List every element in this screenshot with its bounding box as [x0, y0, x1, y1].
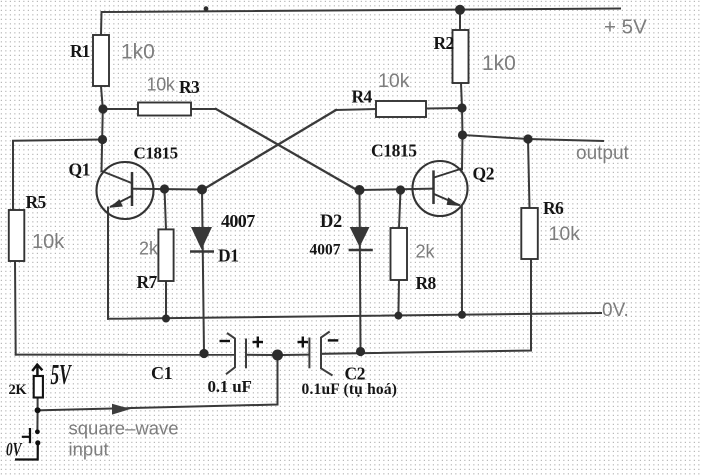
wire Q2 base lead	[360, 189, 434, 190]
svg-text:2K: 2K	[9, 382, 28, 398]
wire Q1 collector diagonal	[102, 171, 132, 183]
junction Q1 base / D1	[197, 185, 207, 195]
svg-text:input: input	[69, 439, 109, 460]
svg-text:R8: R8	[416, 273, 437, 293]
wire Q2 collector vertical	[461, 135, 464, 169]
wire R3 left lead	[103, 108, 138, 110]
svg-text:5V: 5V	[51, 360, 73, 391]
svg-text:2k: 2k	[416, 242, 436, 262]
svg-text:0V: 0V	[6, 438, 23, 460]
svg-text:10k: 10k	[32, 231, 65, 253]
C2 minus sign	[328, 339, 339, 341]
svg-text:R3: R3	[179, 77, 200, 97]
resistor 2K input	[34, 376, 43, 398]
wire R2 bottom lead	[461, 83, 462, 108]
diode D1	[190, 227, 214, 252]
svg-text:4007: 4007	[221, 211, 255, 231]
wire R2 top lead	[459, 10, 461, 30]
svg-text:4007: 4007	[310, 242, 341, 259]
resistor R5	[9, 210, 24, 261]
transistor Q2	[413, 161, 468, 216]
speck on top rail	[204, 6, 209, 11]
junction output / collector	[458, 130, 467, 139]
wire D2 vertical	[360, 190, 361, 352]
wire 2K bottom lead	[37, 398, 39, 411]
junction cap line / D2	[356, 347, 365, 356]
svg-text:10k: 10k	[147, 75, 176, 95]
wire R8 top lead	[399, 190, 401, 228]
wire node to left branch	[13, 140, 103, 211]
svg-text:+ 5V: + 5V	[604, 16, 647, 39]
wire R8 bottom lead	[397, 280, 400, 315]
svg-text:1k0: 1k0	[482, 52, 516, 75]
diode D2	[349, 227, 373, 250]
wire output line	[463, 135, 604, 141]
wire R7 bottom lead	[165, 281, 167, 318]
resistor R3	[138, 103, 191, 116]
wire Q1 emitter vertical	[107, 208, 109, 319]
svg-text:square–wave: square–wave	[69, 418, 179, 439]
svg-text:D1: D1	[218, 246, 239, 266]
capacitor C2	[309, 332, 332, 376]
wire middle node to C2 plate	[283, 354, 309, 356]
resistor R8	[391, 228, 408, 280]
wire capacitor line right to R6 bottom	[322, 259, 532, 354]
transistor Q1	[97, 162, 154, 219]
svg-text:R4: R4	[352, 87, 373, 107]
wire D1 vertical	[202, 190, 204, 354]
junction cap line / D1	[199, 349, 208, 358]
5V supply arrow (bottom-left)	[32, 365, 42, 377]
wire R4 right lead	[426, 107, 462, 110]
svg-text:Q2: Q2	[473, 164, 495, 184]
svg-text:Q1: Q1	[69, 160, 91, 180]
svg-text:0.1 uF: 0.1 uF	[208, 377, 252, 396]
wire 0V rail	[108, 313, 601, 319]
svg-text:R7: R7	[137, 272, 158, 292]
junction 0V / Q2 emitter	[458, 311, 466, 319]
junction node left branch	[98, 135, 107, 144]
resistor R6	[521, 208, 538, 259]
C1 plus sign	[253, 337, 264, 348]
svg-text:C1815: C1815	[134, 144, 178, 163]
svg-text:C1: C1	[151, 363, 173, 383]
junction output / R6	[523, 134, 532, 143]
svg-text:R6: R6	[543, 198, 564, 218]
svg-text:10k: 10k	[378, 70, 410, 92]
junction cap line middle (C1/C2)	[272, 350, 283, 361]
junction 0V / R7	[162, 315, 170, 323]
C2 plus sign	[298, 337, 309, 348]
wire R4 left lead	[336, 109, 376, 110]
svg-text:10k: 10k	[549, 223, 581, 245]
svg-text:output: output	[576, 143, 630, 164]
wire top +5V rail	[101, 9, 620, 36]
wire R6 top lead	[528, 139, 530, 208]
wire C1 plate to middle node	[247, 354, 273, 356]
svg-text:C1815: C1815	[371, 141, 417, 161]
junction Q2 base / R8	[396, 185, 405, 194]
wire R5 bottom lead	[14, 261, 17, 355]
wire 2K top with 5V arrow	[37, 366, 39, 376]
wire cross-couple R4 to Q1 base	[203, 110, 336, 190]
junction input / 2K	[35, 407, 41, 413]
svg-text:2k: 2k	[139, 239, 159, 259]
svg-text:R1: R1	[70, 41, 90, 61]
wire R7 top lead	[165, 189, 167, 229]
svg-text:R2: R2	[434, 33, 454, 53]
junction Q2 base / D2	[355, 185, 365, 195]
input arrowhead	[112, 404, 131, 415]
wire junction to switch contact	[36, 410, 38, 431]
resistor R2	[453, 30, 469, 83]
wire R1 bottom lead to node	[101, 86, 103, 109]
svg-text:0.1uF (tụ hoá): 0.1uF (tụ hoá)	[302, 381, 398, 398]
svg-text:R5: R5	[26, 192, 47, 212]
resistor R7	[158, 229, 173, 281]
wire node to Q1 collector vertical	[102, 109, 103, 171]
wire Q2 emitter vertical	[461, 206, 463, 315]
resistor R1	[93, 35, 109, 86]
C1 minus sign	[220, 340, 231, 342]
switch contact upper	[35, 429, 40, 434]
switch contact lower	[35, 440, 40, 445]
wire R3 right lead	[191, 108, 216, 110]
junction dot top rail R2	[455, 5, 465, 15]
switch (push-button) contacts and lever	[15, 428, 38, 460]
wire Q1 base lead	[133, 188, 202, 191]
svg-text:D2: D2	[320, 212, 342, 232]
svg-text:1k0: 1k0	[121, 41, 155, 64]
junction R4 / R2	[457, 103, 466, 112]
wire bottom capacitor line left	[16, 354, 234, 356]
svg-text:0V.: 0V.	[602, 300, 629, 321]
wire input node vertical	[38, 355, 278, 410]
capacitor C1	[226, 333, 246, 374]
junction Q1 base / R7	[160, 184, 169, 193]
resistor R4	[376, 101, 426, 117]
junction node R1/R3	[98, 104, 107, 113]
junction 0V / R8	[394, 312, 402, 320]
wire cross-couple R3 to Q2 base	[216, 109, 357, 190]
wire R2 node to output node	[461, 108, 464, 135]
